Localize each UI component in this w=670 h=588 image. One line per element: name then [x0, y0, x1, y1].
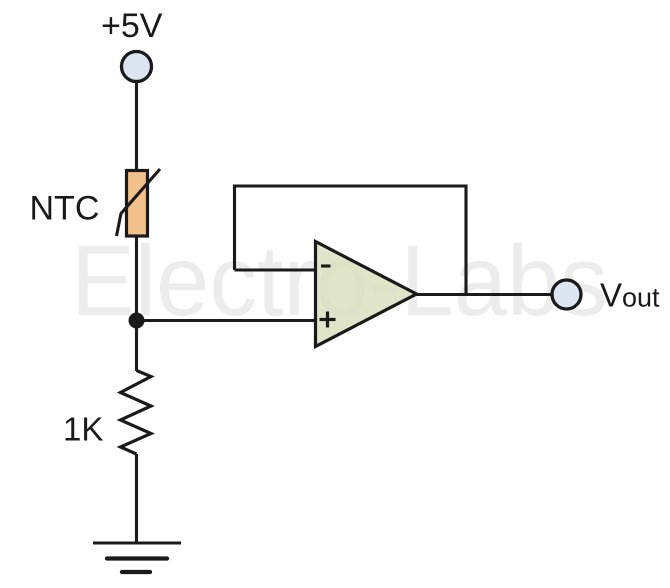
wire op-amp minus input [235, 268, 317, 271]
op-amp minus pin label [321, 264, 331, 267]
thermistor NTC body [127, 171, 148, 237]
resistor 1K zigzag [121, 371, 152, 455]
op-amp U1 [316, 242, 417, 347]
wire feedback loop [235, 186, 467, 295]
wire node to op-amp plus input [137, 319, 317, 322]
wire node to resistor [135, 321, 138, 371]
node junction dot [129, 313, 145, 329]
terminal +5V [122, 52, 152, 82]
svg-text:+5V: +5V [101, 7, 163, 45]
ground [93, 543, 181, 572]
thermistor NTC diagonal stroke [117, 169, 161, 236]
wire op-amp output [416, 293, 553, 296]
terminal Vout [552, 280, 581, 309]
wire resistor to ground [135, 454, 138, 543]
op-amp plus pin label [320, 318, 336, 321]
wire terminal to thermistor [135, 81, 138, 172]
svg-text:NTC: NTC [30, 190, 100, 228]
svg-text:1K: 1K [63, 411, 103, 448]
wire thermistor to node [135, 236, 138, 321]
svg-text:Vout: Vout [600, 277, 660, 314]
